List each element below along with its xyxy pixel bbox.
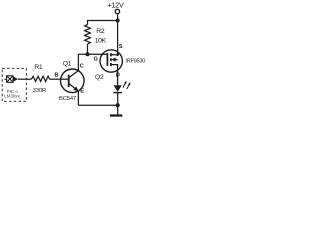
wire junction to R2 top (88, 21, 118, 25)
wire LED cathode to ground node (117, 93, 119, 106)
+12V supply terminal (115, 9, 119, 13)
signal source symbol (4, 76, 18, 83)
svg-text:D: D (116, 72, 120, 78)
transistor Q1 BC547 (61, 69, 85, 93)
wire emitter to ground node (78, 104, 117, 106)
svg-text:330R: 330R (33, 88, 46, 94)
wire MOSFET drain to LED (117, 73, 119, 85)
svg-text:R1: R1 (34, 64, 43, 71)
MOSFET Q2 IRF9530 (100, 49, 122, 73)
node +12V junction (116, 18, 120, 22)
svg-text:E: E (80, 88, 84, 94)
wire +12V to MOSFET source (117, 14, 119, 49)
source box (PIC o LM38xx) (2, 68, 26, 101)
svg-text:B: B (55, 73, 59, 79)
ground (117, 105, 119, 114)
svg-text:G: G (94, 57, 98, 63)
svg-text:BC547: BC547 (59, 96, 76, 102)
resistor R1 (32, 76, 50, 81)
svg-text:R2: R2 (96, 28, 105, 35)
wire gate junction to MOSFET gate (88, 53, 108, 55)
LED light arrows (123, 81, 131, 89)
svg-text:10K: 10K (95, 38, 107, 45)
svg-text:Q1: Q1 (63, 60, 72, 67)
svg-text:S: S (119, 44, 123, 50)
svg-text:C: C (80, 63, 84, 69)
svg-text:Q2: Q2 (95, 74, 104, 81)
resistor R2 (85, 25, 91, 45)
wire base from source box through R1 (18, 76, 61, 81)
wire R1 to Q1 base (50, 78, 61, 80)
wire gate junction to Q1 collector (78, 54, 87, 70)
node ground junction (116, 103, 120, 107)
LED (114, 85, 122, 92)
svg-text:+12V: +12V (107, 0, 124, 9)
wire R2 bottom lead (87, 44, 89, 54)
node gate junction (86, 52, 90, 56)
svg-text:IRF9530: IRF9530 (125, 58, 145, 64)
svg-text:LM38xx: LM38xx (4, 94, 20, 99)
wire Q1 emitter lead (77, 91, 79, 105)
